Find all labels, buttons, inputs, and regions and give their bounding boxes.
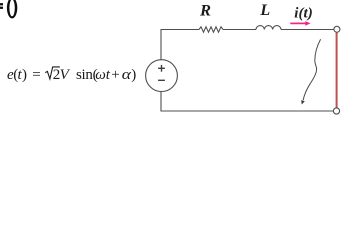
wire: between resistor and inductor — [223, 29, 256, 31]
wire: bottom rail (bottom terminal to source bottom) — [161, 92, 333, 112]
svg-text:): ) — [131, 67, 136, 83]
radical sign of sqrt(2) — [45, 67, 60, 79]
svg-text:): ) — [22, 67, 27, 83]
label t=0 (cropped at top-left): equals sign bars — [0, 3, 3, 9]
switch arrow head — [301, 100, 305, 104]
resistor R (zigzag) — [199, 27, 223, 32]
svg-text:ωt: ωt — [95, 67, 111, 83]
switch opening arc (curved arrow) — [303, 39, 321, 100]
svg-text:+: + — [111, 67, 119, 83]
voltage source E (circle) — [146, 60, 178, 92]
switch blade closed position (red line) — [336, 33, 338, 108]
formula e(t) = sqrt(2) V sin(wt + alpha) — [7, 67, 41, 83]
svg-text:L: L — [259, 2, 270, 19]
terminal top (open circle) — [334, 26, 340, 32]
voltage source minus sign — [158, 79, 165, 81]
wire: left rail top (source top to top-left corner to resistor) — [161, 30, 199, 60]
svg-text:R: R — [199, 3, 211, 20]
svg-text:V: V — [60, 67, 71, 83]
svg-text:i(t): i(t) — [294, 5, 313, 21]
inductor L (3 humps) — [256, 26, 281, 30]
terminal bottom (open circle) — [333, 108, 339, 114]
wire: inductor to top switch terminal — [281, 29, 334, 31]
label t=0 (cropped): digit 0 drawn as ellipse ring — [7, 0, 17, 18]
svg-text:=: = — [32, 67, 40, 83]
current direction arrow (pink) — [290, 21, 310, 26]
voltage source plus sign — [158, 65, 165, 72]
